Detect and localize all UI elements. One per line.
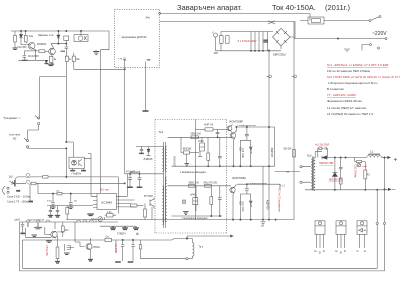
- svg-text:захранване ДЗУЧИ: захранване ДЗУЧИ: [121, 35, 146, 39]
- svg-text:47мк: 47мк: [47, 201, 52, 203]
- svg-text:Др: Др: [136, 233, 140, 236]
- svg-text:НЕR306-УВВ: НЕR306-УВВ: [329, 179, 343, 181]
- svg-text:+ in 21: + in 21: [118, 57, 126, 61]
- svg-text:D: D: [319, 251, 322, 255]
- svg-text:с трим: с трим: [360, 166, 367, 168]
- svg-text:с кондензатор шит: с кондензатор шит: [248, 183, 267, 185]
- svg-text:см0,1: см0,1: [15, 220, 22, 222]
- svg-text:1к: 1к: [69, 58, 72, 61]
- svg-text:G: G: [335, 249, 338, 253]
- svg-text:Сила 2 К2+ - 10Ом: Сила 2 К2+ - 10Ом: [7, 195, 30, 199]
- svg-text:Тр1 - Е65/Пera, от Е208ф ч.Р 4: Тр1 - Е65/Пera, от Е208ф ч.Р 4 25/Т 4.8 …: [327, 63, 388, 67]
- svg-text:зиг: зиг: [286, 171, 289, 174]
- svg-text:0,5Ом 5W: 0,5Ом 5W: [45, 245, 47, 256]
- svg-text:A: A: [364, 249, 366, 253]
- svg-text:ат глк: ат глк: [250, 201, 252, 208]
- svg-text:10к: 10к: [56, 190, 59, 192]
- svg-text:hfe=150: hfe=150: [18, 46, 27, 49]
- svg-text:S: S: [344, 249, 346, 253]
- svg-text:KBPC3510: KBPC3510: [273, 53, 286, 57]
- svg-text:t°: t°: [213, 32, 215, 35]
- svg-text:БУХ4/2W: БУХ4/2W: [173, 156, 176, 167]
- svg-text:С16 100н: С16 100н: [241, 202, 243, 213]
- svg-text:Феромагнит Е30/1.96 мм: Феромагнит Е30/1.96 мм: [327, 99, 362, 103]
- svg-text:Заваръчен апарат.: Заваръчен апарат.: [177, 3, 242, 12]
- svg-text:46ДР008: 46ДР008: [270, 148, 272, 158]
- svg-text:АУ6Т-2А: АУ6Т-2А: [204, 123, 214, 126]
- svg-text:3 х 470uF/400V: 3 х 470uF/400V: [238, 39, 257, 43]
- svg-text:G: G: [314, 249, 317, 253]
- svg-text:10к: 10к: [29, 34, 34, 38]
- svg-text:L1 10+4w [ПЕЛ] 12" намотки: L1 10+4w [ПЕЛ] 12" намотки: [327, 106, 366, 110]
- svg-text:2к: 2к: [54, 58, 57, 61]
- svg-text:10n: 10n: [74, 201, 78, 203]
- svg-text:МС чип: МС чип: [100, 188, 110, 192]
- svg-text:пЛ40: пЛ40: [190, 194, 196, 197]
- svg-text:'низ чело: 'низ чело: [9, 133, 21, 137]
- svg-text:син 0,5W: син 0,5W: [114, 244, 116, 255]
- svg-text:UC3845: UC3845: [101, 201, 112, 205]
- svg-text:46ДР008: 46ДР008: [266, 200, 268, 210]
- svg-text:ТУВ574: ТУВ574: [117, 233, 126, 236]
- svg-text:Ток 40-150А.: Ток 40-150А.: [272, 3, 316, 12]
- svg-text:2к2: 2к2: [9, 175, 14, 179]
- svg-text:+: +: [394, 157, 398, 164]
- svg-text:С18 1000мк: С18 1000мк: [354, 165, 357, 179]
- svg-text:559/2 1W: 559/2 1W: [191, 133, 202, 136]
- svg-text:+7w82%: +7w82%: [71, 172, 82, 176]
- svg-text:10к: 10к: [76, 58, 81, 61]
- svg-text:С16 100н: С16 100н: [241, 148, 243, 159]
- svg-text:C: C: [357, 249, 360, 253]
- svg-text:L4 10 [ПЕЛ] 20 намотки / ПЕЛ: L4 10 [ПЕЛ] 20 намотки / ПЕЛ 1.0: [327, 112, 373, 116]
- svg-text:У 1.1: У 1.1: [280, 185, 286, 188]
- svg-text:65 ': 65 ': [13, 137, 18, 141]
- svg-text:с кондензатор озм: с кондензатор озм: [237, 125, 256, 127]
- svg-text:с минимален импеданс: с минимален импеданс: [182, 217, 209, 220]
- svg-text:ЖОМ7038Р: ЖОМ7038Р: [229, 120, 243, 124]
- svg-text:с минимален импеданс: с минимален импеданс: [180, 171, 207, 174]
- svg-text:2N966А: 2N966А: [37, 42, 47, 46]
- svg-text:НЕR306-УВВ: НЕR306-УВВ: [319, 163, 333, 165]
- svg-text:ЖП.0ж08: ЖП.0ж08: [130, 171, 141, 174]
- svg-text:10R: 10R: [214, 53, 219, 55]
- svg-text:Тр2: Тр2: [307, 154, 312, 158]
- svg-text:РГ7008: РГ7008: [144, 195, 153, 198]
- svg-text:ат глк: ат глк: [250, 148, 252, 155]
- svg-text:БС547: БС547: [58, 232, 65, 234]
- svg-text:–: –: [392, 188, 396, 194]
- svg-text:559/2 1W: 559/2 1W: [189, 181, 200, 184]
- svg-text:С17 и С19 керамични: С17 и С19 керамични: [278, 189, 280, 213]
- svg-text:В 4 намотки: В 4 намотки: [327, 87, 344, 91]
- svg-text:D: D: [340, 251, 343, 255]
- svg-text:Тр1: Тр1: [159, 130, 164, 134]
- svg-text:6Е0/2W: 6Е0/2W: [183, 148, 192, 151]
- svg-text:1W но 42 намотки ПЕЛ 0.50мм: 1W но 42 намотки ПЕЛ 0.50мм: [327, 69, 370, 73]
- svg-text:Сила 1 Т4 - 10Ом: Сила 1 Т4 - 10Ом: [7, 200, 28, 204]
- svg-text:24v: 24v: [145, 15, 150, 19]
- svg-text:ГТ - К20/12/6/, К2000: ГТ - К20/12/6/, К2000: [327, 93, 356, 97]
- svg-text:541к ПЛ 2W: 541к ПЛ 2W: [204, 181, 218, 184]
- svg-text:ЖОМ7038А: ЖОМ7038А: [232, 176, 246, 180]
- svg-text:Тр2 176/32 К206 +2 АнП1 (Е 04: Тр2 176/32 К206 +2 АнП1 (Е 046) Ех тл (4…: [327, 75, 400, 79]
- svg-text:ЛцВ616: ЛцВ616: [144, 158, 154, 161]
- svg-text:~220V: ~220V: [372, 31, 387, 37]
- svg-text:Тр х: Тр х: [199, 246, 204, 249]
- svg-text:470Ом: 470Ом: [93, 247, 101, 249]
- svg-text:3к3: 3к3: [65, 230, 69, 232]
- svg-text:Закраине 1 см: Закраине 1 см: [38, 35, 54, 37]
- svg-text:1N4148 1N4148: 1N4148 1N4148: [28, 220, 45, 222]
- svg-text:(2011г.): (2011г.): [325, 3, 351, 12]
- svg-text:"Треодвани" ↗: "Треодвани" ↗: [3, 116, 21, 120]
- svg-text:L1: L1: [370, 150, 374, 154]
- svg-text:R5: R5: [367, 174, 371, 177]
- svg-text:Св: Св: [106, 235, 110, 238]
- svg-text:40,0х50V: 40,0х50V: [28, 54, 39, 58]
- svg-text:560 2W: 560 2W: [284, 149, 293, 151]
- svg-text:S: S: [323, 249, 325, 253]
- svg-text:4х1 1W 22NF: 4х1 1W 22NF: [315, 145, 330, 147]
- svg-text:пЛ40: пЛ40: [198, 140, 204, 143]
- svg-text:1 Вторични свързана карт: 1 Вторични свързана картон 0.5mm: [328, 81, 378, 85]
